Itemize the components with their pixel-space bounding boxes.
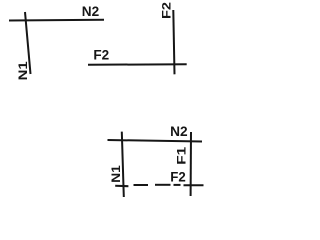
svg-text:F2: F2 <box>160 2 174 19</box>
svg-text:F2: F2 <box>170 168 186 184</box>
svg-text:N2: N2 <box>82 3 100 19</box>
svg-text:N1: N1 <box>16 61 30 80</box>
svg-text:F1: F1 <box>175 146 189 164</box>
svg-text:N2: N2 <box>170 123 188 139</box>
svg-text:F2: F2 <box>93 47 109 63</box>
svg-text:N1: N1 <box>109 165 123 183</box>
